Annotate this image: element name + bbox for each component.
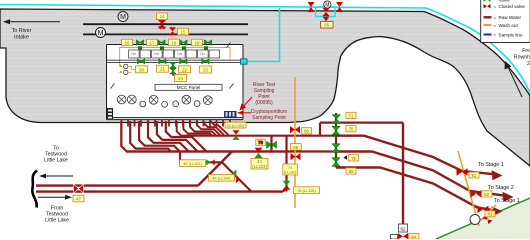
svg-text:(00095): (00095) xyxy=(255,100,273,106)
cryptosporidium sampler box xyxy=(224,111,237,118)
lake line diagonal to manifold M2 xyxy=(198,152,232,186)
flow meter 62 on drop main xyxy=(399,224,408,232)
svg-text:Rownh: Rownh xyxy=(514,55,530,61)
svg-text:Fro: Fro xyxy=(522,48,530,54)
riser valve 79 xyxy=(332,144,340,153)
small pump S1 xyxy=(140,101,146,107)
label 82 xyxy=(482,191,493,197)
label 24 xyxy=(175,75,187,82)
svg-text:78: 78 xyxy=(258,140,263,145)
riser valve 80 xyxy=(332,158,340,167)
svg-text:80: 80 xyxy=(349,169,354,174)
stage line A xyxy=(336,136,494,175)
svg-text:16: 16 xyxy=(125,40,130,45)
label 65 xyxy=(290,144,301,151)
land mass gray area xyxy=(0,9,530,166)
motor M3 circle xyxy=(324,1,331,9)
stage A arrowhead xyxy=(492,170,503,180)
top raw-water valve V-b on river main xyxy=(336,2,343,12)
To Testwood Little Lake text xyxy=(44,146,68,164)
svg-text:84: 84 xyxy=(411,234,416,239)
small pump S4 xyxy=(194,101,200,107)
pipe 6 xyxy=(166,121,207,152)
riser valve 71 xyxy=(332,115,340,124)
level indicator circles xyxy=(119,64,135,74)
valve 24 (green, vertical double) xyxy=(170,62,177,74)
label 21 xyxy=(157,65,169,72)
svg-text:Intake: Intake xyxy=(14,35,29,41)
pipe stubs through wall xyxy=(122,120,231,127)
label 47 xyxy=(73,195,84,202)
svg-text:17: 17 xyxy=(150,40,155,45)
svg-text:66: 66 xyxy=(304,129,309,134)
svg-text:To Stage 1: To Stage 1 xyxy=(478,162,504,168)
label 19 xyxy=(192,39,203,46)
svg-text:79: 79 xyxy=(351,156,356,161)
svg-text:23: 23 xyxy=(203,68,208,73)
pump P5 xyxy=(203,96,212,105)
svg-text:76 (LL105): 76 (LL105) xyxy=(297,189,316,193)
valve 17 xyxy=(158,40,165,45)
svg-text:Dm: Dm xyxy=(131,52,136,56)
washout spur (orange) xyxy=(481,205,496,220)
svg-text:71: 71 xyxy=(349,113,354,118)
manifold M2 xyxy=(127,150,336,152)
svg-text:=: = xyxy=(494,23,497,28)
valve 83 on stage C (closed) xyxy=(478,206,489,214)
arrow to lake xyxy=(39,174,73,179)
valve 46 (green/red on lake diagonal) xyxy=(232,169,240,183)
channel valve above label 20 xyxy=(137,59,144,64)
stage C arrowhead xyxy=(492,206,503,216)
channel valve above label 21 xyxy=(159,59,166,64)
label 79 xyxy=(349,155,359,161)
label 70 xyxy=(346,126,356,132)
svg-text:85: 85 xyxy=(324,23,329,28)
wall corner tick top right xyxy=(227,43,231,48)
label 45 (LL101) xyxy=(180,160,206,167)
svg-text:(LL103): (LL103) xyxy=(252,164,267,169)
svg-text:Wash out: Wash out xyxy=(499,23,519,28)
manifold M1 xyxy=(181,135,336,137)
svg-text:Little Lake: Little Lake xyxy=(45,218,69,224)
screen top green blocks xyxy=(138,46,208,50)
box left of valve 84 xyxy=(391,235,398,240)
label 76 (LL105) xyxy=(294,187,320,194)
stage line B xyxy=(336,152,505,196)
intake channel line 1 xyxy=(83,23,248,25)
valve 16 xyxy=(136,40,143,45)
label 74 (LL102) xyxy=(283,164,298,175)
svg-text:83: 83 xyxy=(488,212,493,217)
svg-text:62: 62 xyxy=(400,226,406,231)
pipe 4 xyxy=(148,121,189,152)
screen inner labels xyxy=(131,52,205,56)
pump P3 xyxy=(149,95,158,104)
striped equipment box left xyxy=(107,108,113,119)
svg-text:M: M xyxy=(120,14,126,21)
leader arrow river test xyxy=(240,97,253,111)
svg-text:44 (LL100): 44 (LL100) xyxy=(227,124,245,128)
cyan river main top xyxy=(0,5,530,94)
pump P2 xyxy=(127,95,136,104)
pipe 2 xyxy=(130,121,171,152)
label 20 xyxy=(136,66,148,73)
riser from manifold M1 to line 1 xyxy=(319,123,321,136)
valve below M2 on washout (closed) xyxy=(291,153,301,160)
arrow from lake xyxy=(38,195,72,200)
label 14 xyxy=(157,13,168,20)
From Rownhams text xyxy=(514,48,530,67)
channel double line xyxy=(107,59,244,61)
svg-text:24: 24 xyxy=(178,76,183,81)
svg-text:14: 14 xyxy=(160,14,165,19)
label 84 xyxy=(409,234,420,240)
label 15 xyxy=(178,28,189,35)
From Rownhams arrow xyxy=(505,61,523,97)
distribution line 1 xyxy=(320,121,403,123)
label 80 xyxy=(346,168,356,174)
svg-text:(LL102): (LL102) xyxy=(284,171,296,175)
outfall circle xyxy=(470,215,480,225)
left pump discharge group: pipe 1 to manifold M2 xyxy=(121,121,286,152)
label 46 (LL104) xyxy=(209,175,235,182)
svg-text:19: 19 xyxy=(195,40,200,45)
label 44 (LL100) xyxy=(225,122,246,128)
riser cluster vertical xyxy=(335,113,337,168)
top raw-water valve V-a on river main xyxy=(308,2,315,12)
svg-text:22: 22 xyxy=(182,67,187,72)
pipe 3 xyxy=(139,121,180,152)
label 78 xyxy=(256,139,265,145)
right pump discharge group joining manifold M1 xyxy=(177,121,181,136)
svg-text:47: 47 xyxy=(76,197,81,202)
valve 18 xyxy=(180,40,187,45)
To River Intake arrow xyxy=(3,19,60,24)
motor M2 circle xyxy=(96,28,106,38)
svg-text:20: 20 xyxy=(139,67,144,72)
channel valve above label 22 xyxy=(180,59,187,64)
From Testwood Little Lake text xyxy=(45,206,69,224)
valve 14 (closed, on channel line 1) xyxy=(158,20,166,28)
building left wall xyxy=(106,45,108,120)
To River Intake text xyxy=(12,28,32,41)
svg-text:=: = xyxy=(494,15,497,20)
valve on lake return riser xyxy=(283,181,291,190)
label 22 xyxy=(179,66,191,73)
lake return riser elbow xyxy=(283,188,287,192)
pump P4 xyxy=(182,95,191,104)
leader arrow crypto xyxy=(237,111,251,116)
washout pipe from channel with valve 24 xyxy=(172,62,174,76)
svg-text:MCC Panel: MCC Panel xyxy=(177,85,201,90)
red drop arrow to label 85 xyxy=(323,17,330,22)
lake shore curve xyxy=(32,171,37,208)
pipe 5 xyxy=(157,121,198,152)
cyan branch to building xyxy=(247,8,280,62)
pump P1 xyxy=(117,95,126,104)
washout diagonal to outfall (orange) xyxy=(458,151,479,226)
svg-text:82: 82 xyxy=(484,192,489,197)
valve 15 (closed, between channel lines) xyxy=(169,27,176,35)
valve 81 on stage A (closed) xyxy=(457,168,468,176)
svg-text:=: = xyxy=(494,32,497,37)
svg-text:45 (LL101): 45 (LL101) xyxy=(183,162,202,166)
drop main to stage works xyxy=(402,123,404,224)
intake channel line 2 xyxy=(83,33,248,35)
cyan wall connector box xyxy=(241,59,248,64)
valve 84 at bottom (closed) xyxy=(398,233,408,239)
branch line LL101 xyxy=(180,152,251,192)
svg-text:21: 21 xyxy=(160,67,165,72)
label 83 xyxy=(485,211,495,217)
svg-text:74: 74 xyxy=(288,165,293,170)
valve 47 crossover (red X) xyxy=(74,184,84,193)
valve 19 xyxy=(204,40,211,45)
red dashes below valve 14 xyxy=(159,27,166,30)
green boundary line xyxy=(436,198,530,239)
riser valve 70 xyxy=(332,126,340,135)
wall break mark left xyxy=(111,84,115,89)
label 23 xyxy=(200,66,212,73)
label 66 xyxy=(302,128,312,134)
svg-text:18: 18 xyxy=(172,40,177,45)
small pump S2 xyxy=(162,101,168,107)
label 17 xyxy=(147,39,158,46)
svg-text:M: M xyxy=(98,30,104,37)
MCC Panel box xyxy=(155,84,222,90)
svg-text:Sample line: Sample line xyxy=(499,32,523,37)
valve 45 (green/red on LL101 line) xyxy=(206,159,214,165)
small pump S3 xyxy=(173,101,179,107)
orange screen frame xyxy=(120,48,230,67)
svg-text:Dm: Dm xyxy=(154,52,159,56)
valve 44 (red/green on L1-M1 step) xyxy=(233,130,240,140)
svg-text:81: 81 xyxy=(472,173,477,178)
valve 85 in bypass box xyxy=(323,8,330,16)
green area bottom right xyxy=(436,198,530,239)
building interior xyxy=(107,45,244,120)
svg-text:Sampling Point: Sampling Point xyxy=(252,115,286,121)
svg-text:Raw Water: Raw Water xyxy=(499,15,522,20)
label 18 xyxy=(169,39,180,46)
screen band rectangles xyxy=(129,50,220,58)
svg-text:To Stage 1: To Stage 1 xyxy=(494,198,520,204)
drop to lake return xyxy=(285,136,287,192)
legend box xyxy=(481,0,530,43)
cyan bypass box at top valve xyxy=(316,7,336,17)
River Test Sampling Point text xyxy=(253,82,276,106)
washout line from channel (orange) xyxy=(294,77,296,208)
valve 66 (closed on washout) xyxy=(290,126,300,133)
lake line out (top) xyxy=(36,184,198,186)
svg-text:15: 15 xyxy=(181,30,186,35)
svg-text:Dm: Dm xyxy=(200,52,205,56)
stage B arrowhead xyxy=(503,192,514,202)
svg-text:70: 70 xyxy=(349,127,354,132)
svg-text:Dm: Dm xyxy=(177,52,182,56)
svg-text:=: = xyxy=(494,4,497,9)
label 43 (LL103) xyxy=(251,159,268,170)
svg-text:M: M xyxy=(325,3,329,9)
small drain valve near outfall xyxy=(483,215,493,225)
building right wall xyxy=(242,45,244,120)
svg-text:65: 65 xyxy=(293,145,298,150)
svg-text:46 (LL104): 46 (LL104) xyxy=(212,177,231,181)
valve 43 (red/green on M2) xyxy=(255,148,263,158)
svg-text:Closed valve: Closed valve xyxy=(499,4,526,9)
svg-text:To River: To River xyxy=(12,28,32,34)
motor M1 circle xyxy=(118,12,128,22)
screen inlet valves row: label 16 xyxy=(122,39,133,46)
lake line return (bottom) xyxy=(36,190,283,192)
svg-text:Valve: Valve xyxy=(499,0,511,3)
label 71 xyxy=(346,112,356,118)
svg-text:To Stage 2: To Stage 2 xyxy=(488,185,514,191)
wall break mark right xyxy=(230,84,234,89)
valve 82 on stage B (closed) xyxy=(471,190,482,198)
valve 78 on drop (green) xyxy=(267,141,277,148)
building top wall xyxy=(107,44,244,46)
building floor double line xyxy=(107,117,244,119)
channel valve above label 23 xyxy=(202,59,209,64)
drop to valve 78 xyxy=(270,136,272,152)
label 85 xyxy=(321,22,334,29)
svg-text:Little Lake: Little Lake xyxy=(44,158,68,164)
Cryptosporidium Sampling Point text xyxy=(251,109,287,121)
stage line C xyxy=(336,168,494,211)
black tick xyxy=(344,155,348,160)
label 81 xyxy=(469,172,479,178)
